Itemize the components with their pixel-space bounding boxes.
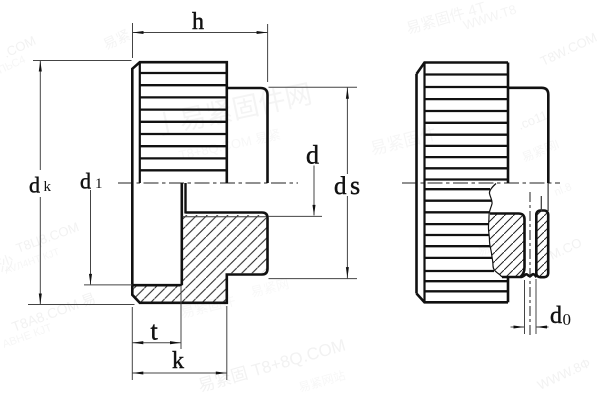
d1 extension line — [84, 284, 132, 286]
break line remnant right — [540, 196, 542, 211]
svg-text:易紧: 易紧 — [101, 26, 133, 52]
lip hatch — [536, 211, 548, 277]
hatch section fill — [134, 215, 267, 302]
dim t extension lines — [131, 307, 133, 349]
thread major thin line — [183, 216, 267, 218]
recess wall — [181, 183, 184, 285]
svg-text:0: 0 — [563, 310, 572, 329]
broken-out section: wavy break line — [488, 184, 502, 278]
thread end face line — [184, 183, 186, 214]
svg-text:易紧网: 易紧网 — [249, 276, 290, 300]
right collar outline external — [508, 88, 548, 183]
dim d0 extension lines — [524, 280, 526, 334]
dim h arrows — [133, 31, 144, 34]
svg-text:s: s — [350, 171, 360, 200]
svg-text:易紧网站: 易紧网站 — [297, 368, 347, 395]
collar outline external (top half) — [227, 88, 268, 183]
dim t arrows — [132, 341, 143, 344]
svg-text:t: t — [151, 317, 159, 346]
svg-text:.co11: .co11 — [516, 107, 550, 132]
svg-text:h: h — [192, 9, 204, 35]
chamfer boundary line right head — [423, 63, 425, 303]
svg-text:1: 1 — [95, 176, 103, 192]
d extension line — [268, 215, 322, 217]
dim d1 leader — [90, 190, 92, 284]
dim ds arrows — [346, 88, 349, 99]
section outline (bottom half) — [132, 183, 267, 303]
dim dk arrows — [39, 61, 42, 72]
dim h extension lines — [132, 23, 134, 58]
dim dk extension lines — [33, 60, 132, 62]
svg-text:k: k — [44, 179, 52, 195]
right head right edge — [507, 63, 510, 184]
recess bottom — [132, 284, 182, 287]
svg-text:易紧网l: 易紧网l — [520, 137, 561, 164]
centerline (axis) left figure — [118, 182, 298, 184]
svg-text:d: d — [29, 173, 40, 198]
thin continuation of collar face edge — [547, 183, 549, 211]
knurl lines right head bottom half (interrupted by broken-out section) — [425, 189, 509, 291]
dim k line — [132, 372, 227, 374]
svg-text:d: d — [334, 173, 347, 200]
svg-text:易紧固件: 易紧固件 — [368, 124, 439, 159]
dim dk line — [39, 61, 41, 171]
svg-text:d: d — [306, 141, 319, 170]
svg-text:d: d — [80, 168, 91, 193]
svg-text:ПЬС4: ПЬС4 — [0, 54, 28, 77]
svg-text:WWW.8Ф: WWW.8Ф — [535, 355, 593, 393]
dim k arrows — [132, 371, 143, 374]
dim h line — [133, 32, 268, 34]
svg-text:d: d — [550, 303, 562, 329]
knurl lines right head top half — [425, 75, 509, 180]
svg-text:M.CO: M.CO — [547, 235, 584, 263]
head outline external (top half) — [132, 62, 227, 183]
svg-text:T8A8.COM 易: T8A8.COM 易 — [10, 290, 98, 335]
svg-text:k: k — [172, 348, 184, 374]
svg-text:T8W.COM: T8W.COM — [538, 29, 599, 68]
right head outline — [417, 63, 509, 303]
svg-text:nl.8: nl.8 — [553, 181, 574, 199]
dim d0 arrows + tails — [511, 326, 525, 328]
dim ds line — [346, 87, 348, 174]
cross hole axis — [529, 192, 531, 338]
knurl lines left head (9) — [140, 73, 227, 170]
dim k extension lines — [131, 349, 133, 380]
centerline right figure — [402, 182, 560, 184]
chamfer boundary line left head — [139, 62, 141, 183]
lip outline (material between cross hole and face) — [536, 211, 548, 278]
thread hole line left of cross hole — [490, 214, 525, 277]
dim t line — [132, 342, 181, 344]
broken-out section: hatch left region — [488, 214, 524, 278]
dim d leader — [313, 166, 315, 216]
collar bottom edge — [502, 274, 537, 277]
dim ds extension lines — [269, 86, 358, 88]
